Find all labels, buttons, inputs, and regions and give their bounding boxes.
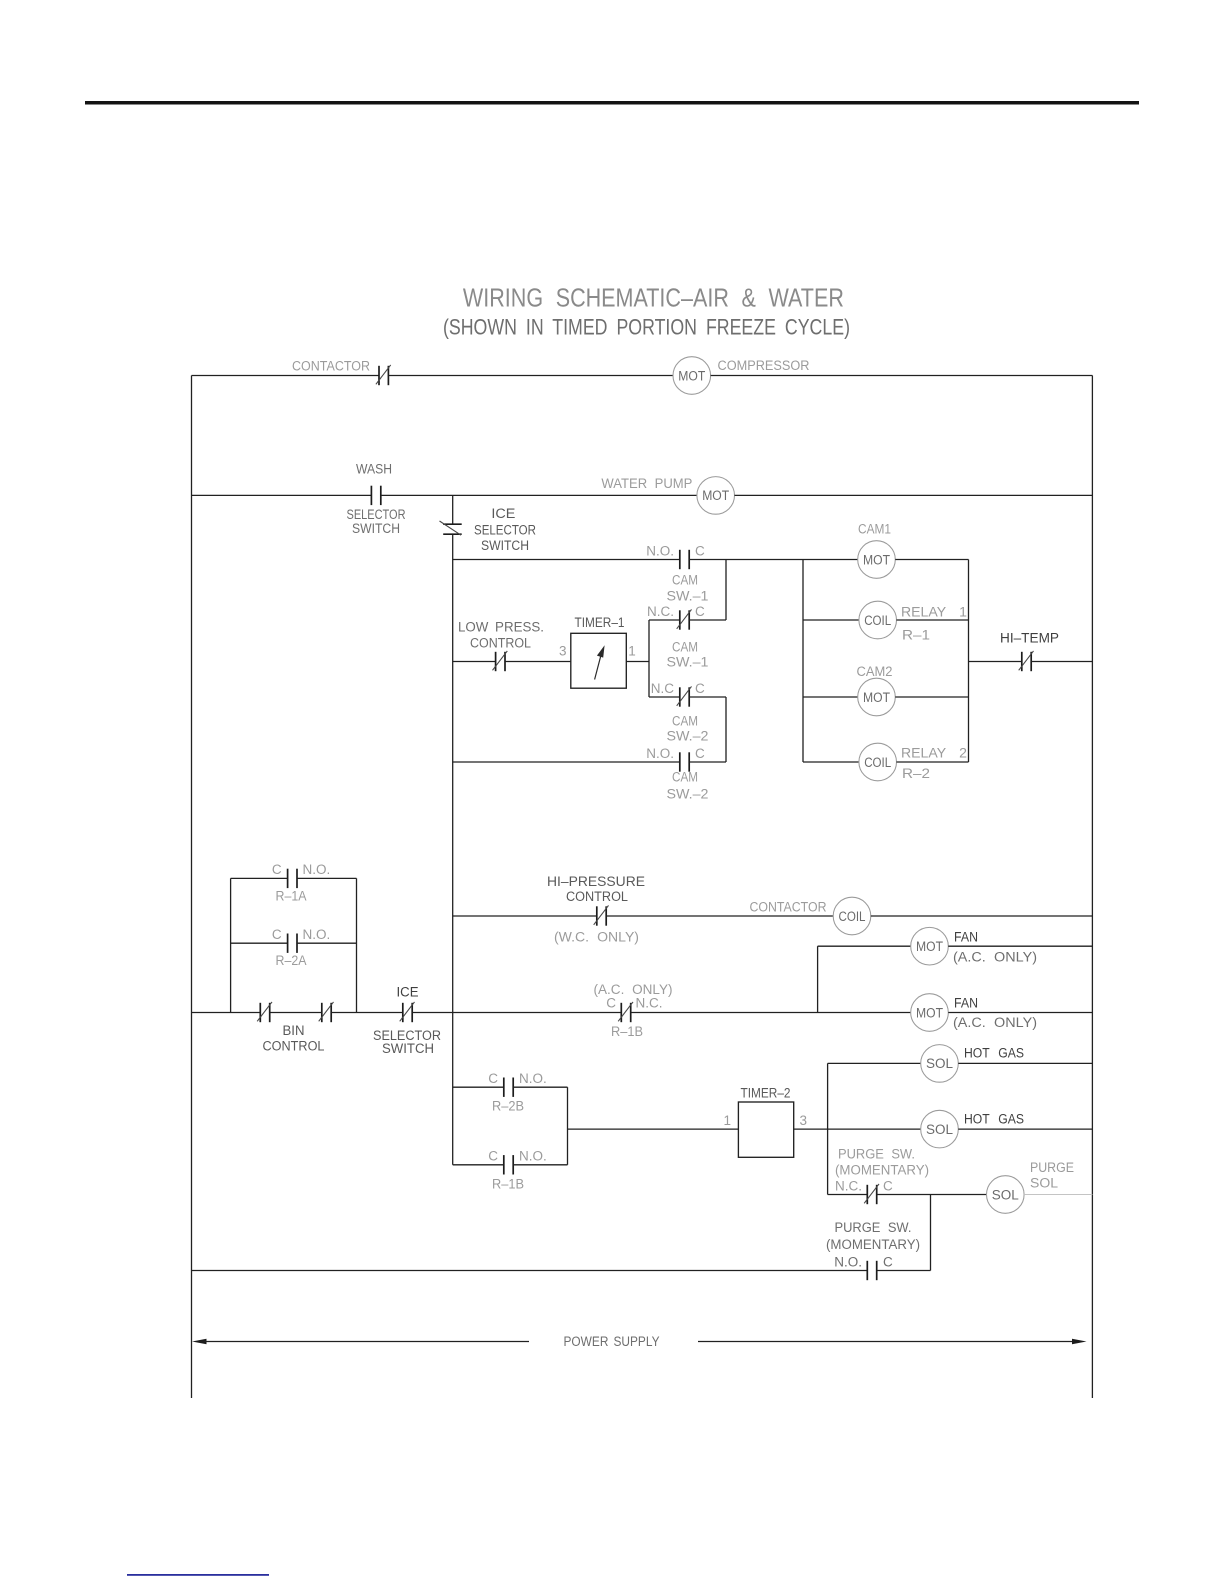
svg-text:RELAY 2: RELAY 2	[901, 746, 967, 761]
svg-text:N.O.: N.O.	[646, 746, 674, 761]
svg-text:CONTROL: CONTROL	[566, 889, 628, 904]
svg-text:C: C	[695, 746, 705, 761]
timer box TIMER-1	[571, 633, 627, 688]
wire R-2B row right	[513, 1086, 567, 1088]
junction vertical x726 A-B	[725, 560, 727, 621]
purge junction vertical x930	[930, 1195, 932, 1271]
svg-text:HOT GAS: HOT GAS	[964, 1112, 1024, 1127]
contact R-2A N.O.	[288, 934, 297, 953]
svg-text:CAM: CAM	[672, 770, 698, 785]
contact LOW PRESS. CONTROL N.C.	[493, 651, 508, 671]
contact CAM SW.-1 N.C.	[677, 609, 692, 629]
svg-text:R–1B: R–1B	[492, 1177, 524, 1192]
svg-text:MOT: MOT	[916, 939, 943, 954]
contact CONTACTOR N.C.	[376, 365, 391, 385]
svg-text:1: 1	[723, 1113, 731, 1128]
contact R-1A N.O.	[288, 869, 297, 888]
wire timer2 input	[568, 1128, 739, 1130]
wire coil2 row left	[803, 761, 859, 763]
svg-text:SELECTOR: SELECTOR	[474, 523, 536, 538]
svg-text:BIN: BIN	[283, 1023, 305, 1038]
wire cam rung A left	[453, 559, 680, 561]
wire coil1 row left	[803, 619, 859, 621]
svg-text:R–2B: R–2B	[492, 1099, 524, 1114]
svg-text:CAM1: CAM1	[858, 522, 891, 537]
wire R-1A row right	[297, 877, 357, 879]
contact R-1B N.O. (lower)	[504, 1155, 513, 1174]
svg-text:SWITCH: SWITCH	[352, 521, 400, 536]
wire R-1B row right	[513, 1164, 567, 1166]
contact ICE SELECTOR SWITCH (main rung) N.C.	[400, 1002, 415, 1022]
contact BIN CONTROL 2 N.C.	[319, 1002, 334, 1022]
svg-text:SW.–1: SW.–1	[667, 589, 709, 604]
contact R-2B N.O.	[504, 1078, 513, 1097]
svg-text:HI–TEMP: HI–TEMP	[1000, 631, 1059, 646]
svg-text:C: C	[695, 544, 705, 559]
svg-text:COIL: COIL	[839, 909, 866, 924]
wire row C left	[649, 696, 680, 698]
svg-text:COMPRESSOR: COMPRESSOR	[718, 358, 810, 373]
svg-text:CONTACTOR: CONTACTOR	[750, 900, 827, 915]
wire hi-temp row left	[969, 661, 1022, 663]
wire rung1 left	[192, 375, 380, 377]
svg-text:SOL: SOL	[992, 1187, 1019, 1202]
svg-text:PURGE: PURGE	[1030, 1160, 1074, 1175]
svg-text:PURGE SW.: PURGE SW.	[835, 1220, 912, 1235]
contact R-1B N.C.	[618, 1002, 633, 1022]
wire rung2 middle	[381, 494, 697, 496]
right power rail	[1091, 376, 1093, 1399]
wire rung2 left	[192, 494, 372, 496]
wire timer out	[626, 661, 649, 663]
wire cam rung A to subrail	[895, 559, 968, 561]
motor MOT fan 1	[911, 927, 949, 965]
svg-text:N.O.: N.O.	[519, 1149, 547, 1164]
power supply right arrowhead	[1072, 1339, 1087, 1345]
svg-text:SOL: SOL	[1030, 1176, 1059, 1191]
contact CAM SW.-1 N.O.	[680, 550, 689, 569]
wire sol1 to rail	[958, 1062, 1092, 1064]
svg-text:MOT: MOT	[863, 690, 890, 705]
wire cam rung D right	[689, 761, 726, 763]
timer box TIMER-2	[738, 1102, 793, 1157]
svg-text:FAN: FAN	[954, 996, 978, 1011]
relay coil COIL R-2	[859, 743, 897, 781]
wire between bin contacts	[270, 1012, 322, 1014]
contactor coil COIL	[833, 897, 871, 935]
svg-text:CAM: CAM	[672, 573, 698, 588]
svg-text:ICE: ICE	[397, 985, 419, 1000]
motor MOT fan 2	[911, 994, 949, 1032]
wire fan2 to rail	[948, 1012, 1092, 1014]
svg-text:MOT: MOT	[916, 1005, 943, 1020]
svg-text:SELECTOR: SELECTOR	[347, 507, 406, 522]
svg-text:COIL: COIL	[864, 755, 891, 770]
wire fan1 to rail	[948, 945, 1092, 947]
svg-text:PURGE SW.: PURGE SW.	[838, 1147, 915, 1162]
svg-text:(MOMENTARY): (MOMENTARY)	[826, 1237, 920, 1252]
svg-text:CONTROL: CONTROL	[263, 1039, 325, 1054]
wire R-2A row right	[297, 942, 357, 944]
power supply left arrowhead	[192, 1339, 207, 1345]
svg-text:TIMER–2: TIMER–2	[741, 1086, 791, 1101]
motor MOT water pump	[697, 477, 735, 515]
wire cam rung D left	[453, 761, 680, 763]
wire purge no row	[192, 1270, 868, 1272]
wire hi-pressure to coil	[606, 915, 833, 917]
relay coil COIL R-1	[859, 601, 897, 639]
svg-text:RELAY 1: RELAY 1	[901, 605, 967, 620]
wire purge nc row left	[828, 1194, 868, 1196]
wire sol2 to rail	[958, 1128, 1092, 1130]
svg-text:C: C	[883, 1179, 893, 1194]
svg-text:(W.C. ONLY): (W.C. ONLY)	[554, 930, 639, 945]
wire main rung left	[192, 1012, 261, 1014]
wire coil1 row right	[897, 619, 969, 621]
wire rung1 right	[711, 375, 1093, 377]
svg-text:TIMER–1: TIMER–1	[575, 615, 625, 630]
svg-text:N.C.: N.C.	[647, 604, 674, 619]
loop right vertical	[356, 878, 358, 1012]
svg-text:HOT GAS: HOT GAS	[964, 1046, 1024, 1061]
svg-text:R–2A: R–2A	[276, 953, 307, 968]
motor MOT cam2	[858, 678, 896, 716]
svg-text:(A.C. ONLY): (A.C. ONLY)	[953, 950, 1037, 965]
svg-text:C: C	[883, 1255, 893, 1270]
svg-text:MOT: MOT	[702, 488, 729, 503]
svg-text:LOW PRESS.: LOW PRESS.	[458, 620, 544, 635]
svg-text:HI–PRESSURE: HI–PRESSURE	[547, 874, 645, 889]
contact BIN CONTROL 1 N.C.	[257, 1002, 272, 1022]
wire sol1 row	[828, 1062, 921, 1064]
wire coil to rail	[871, 915, 1093, 917]
parallel pair vertical x567	[567, 1087, 569, 1165]
svg-text:COIL: COIL	[864, 613, 891, 628]
svg-text:CONTACTOR: CONTACTOR	[292, 359, 370, 374]
svg-text:MOT: MOT	[863, 552, 890, 567]
page header rule	[85, 101, 1139, 105]
svg-text:POWER SUPPLY: POWER SUPPLY	[564, 1334, 660, 1349]
svg-text:SW.–2: SW.–2	[667, 729, 709, 744]
svg-text:C: C	[272, 927, 282, 942]
svg-text:SOL: SOL	[926, 1056, 953, 1071]
wire hi-pressure row left	[453, 915, 597, 917]
svg-text:WASH: WASH	[356, 462, 392, 477]
svg-text:N.O.: N.O.	[303, 862, 331, 877]
contact PURGE SW. N.C. (momentary)	[864, 1184, 879, 1204]
contact ICE SELECTOR SWITCH (vertical)	[440, 521, 462, 535]
svg-text:C: C	[606, 996, 616, 1011]
wire cam2 row right	[895, 696, 968, 698]
wire cam rung A right	[689, 559, 858, 561]
svg-text:N.O.: N.O.	[834, 1255, 862, 1270]
wire timer row left	[453, 661, 496, 663]
svg-text:(SHOWN IN TIMED PORTION FREEZE: (SHOWN IN TIMED PORTION FREEZE CYCLE)	[443, 315, 850, 340]
svg-text:C: C	[695, 681, 705, 696]
junction vertical x726 C-D	[725, 697, 727, 762]
contact WASH selector switch N.O.	[371, 486, 380, 505]
svg-text:MOT: MOT	[678, 368, 705, 383]
svg-text:R–1: R–1	[902, 628, 930, 643]
wire rung1 middle	[388, 375, 673, 377]
solenoid SOL hot gas 1	[921, 1045, 959, 1083]
svg-text:R–1B: R–1B	[611, 1024, 643, 1039]
svg-text:1: 1	[628, 644, 636, 659]
wire R-2B row left	[453, 1086, 504, 1088]
footer blue rule	[127, 1574, 269, 1576]
svg-text:WATER PUMP: WATER PUMP	[601, 476, 692, 491]
wire to R-1B contact	[412, 1012, 621, 1014]
loop left vertical	[230, 878, 232, 1012]
svg-text:CAM: CAM	[672, 714, 698, 729]
contact HI-TEMP N.C.	[1019, 651, 1034, 671]
contact CAM SW.-2 N.C.	[677, 686, 692, 706]
junction vertical x803 A-D	[802, 560, 804, 763]
svg-text:ICE: ICE	[491, 506, 515, 521]
contact CAM SW.-2 N.O.	[680, 752, 689, 771]
svg-text:C: C	[488, 1071, 498, 1086]
wire purge nc row to sol	[877, 1194, 987, 1196]
svg-text:CAM: CAM	[672, 640, 698, 655]
wire branch vertical main	[452, 534, 454, 1165]
motor MOT compressor	[673, 357, 711, 395]
svg-text:R–1A: R–1A	[276, 889, 307, 904]
svg-text:C: C	[695, 604, 705, 619]
svg-text:N.C: N.C	[651, 681, 675, 696]
svg-text:R–2: R–2	[902, 766, 930, 781]
svg-text:SWITCH: SWITCH	[481, 538, 529, 553]
wire to ice selector contact	[331, 1012, 403, 1014]
svg-text:CAM2: CAM2	[857, 664, 893, 679]
svg-text:SW.–1: SW.–1	[667, 655, 709, 670]
wire R-2A row left	[231, 942, 288, 944]
sub rail vertical x968	[968, 560, 970, 763]
svg-text:(MOMENTARY): (MOMENTARY)	[835, 1163, 929, 1178]
solenoid branch vertical x827	[827, 1063, 829, 1194]
wire branch from rung2 down	[452, 495, 454, 524]
svg-text:N.O.: N.O.	[519, 1071, 547, 1086]
svg-text:N.O.: N.O.	[303, 927, 331, 942]
wire purge no row right	[877, 1270, 931, 1272]
contact PURGE SW. N.O. (momentary)	[867, 1261, 876, 1280]
svg-text:N.C.: N.C.	[636, 996, 663, 1011]
wire cam2 row left	[803, 696, 858, 698]
wire hi-temp row right	[1031, 661, 1092, 663]
timer-1 clock hand arrow	[595, 645, 605, 679]
svg-text:N.O.: N.O.	[646, 544, 674, 559]
contact HI-PRESSURE CONTROL N.C.	[594, 905, 609, 925]
power supply left line	[200, 1341, 529, 1343]
svg-text:SW.–2: SW.–2	[667, 787, 709, 802]
junction vertical x649 B-C	[648, 620, 650, 697]
solenoid SOL purge	[987, 1176, 1025, 1214]
svg-text:C: C	[272, 862, 282, 877]
wire timer2 output	[794, 1128, 921, 1130]
fan1 branch vertical	[817, 946, 819, 1012]
wire purge sol to rail (faint)	[1024, 1194, 1092, 1196]
motor MOT cam1	[858, 541, 896, 579]
wire row C right	[689, 696, 726, 698]
svg-text:C: C	[488, 1149, 498, 1164]
solenoid SOL hot gas 2	[921, 1110, 959, 1148]
left power rail	[191, 376, 193, 1399]
wire row B right	[689, 619, 726, 621]
wire R-1A row left	[231, 877, 288, 879]
svg-text:N.C.: N.C.	[835, 1179, 862, 1194]
svg-text:CONTROL: CONTROL	[470, 636, 531, 651]
svg-text:(A.C. ONLY): (A.C. ONLY)	[953, 1015, 1037, 1030]
svg-text:SWITCH: SWITCH	[382, 1041, 434, 1056]
svg-text:FAN: FAN	[954, 930, 978, 945]
wire to fan2 motor	[631, 1012, 911, 1014]
power supply right line	[698, 1341, 1079, 1343]
wire timer row to box	[505, 661, 571, 663]
svg-text:3: 3	[800, 1113, 808, 1128]
wire rung2 right	[735, 494, 1093, 496]
wire row B left	[649, 619, 680, 621]
wire coil2 row right	[897, 761, 969, 763]
svg-text:WIRING SCHEMATIC–AIR & WATER: WIRING SCHEMATIC–AIR & WATER	[463, 283, 844, 313]
wire fan1 row	[818, 945, 911, 947]
svg-text:3: 3	[559, 644, 567, 659]
svg-text:SOL: SOL	[926, 1122, 953, 1137]
wire R-1B row left	[453, 1164, 504, 1166]
